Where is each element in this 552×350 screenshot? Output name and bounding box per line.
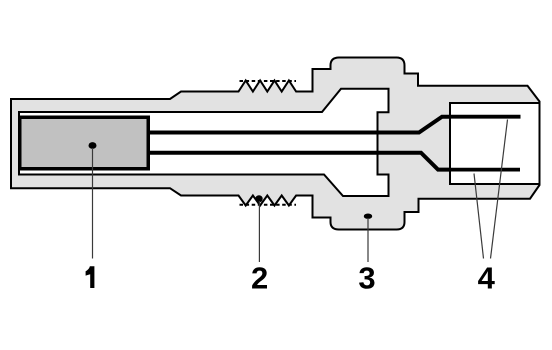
dot 1: [89, 142, 97, 149]
wire 1: [149, 117, 521, 133]
svg-text:3: 3: [358, 260, 375, 295]
leader line 4b: [474, 174, 484, 259]
leader line 3: [367, 218, 369, 262]
thread crest dashed line top: [240, 80, 297, 82]
terminal 2 inside connector: [450, 168, 520, 172]
leader line 4a: [491, 120, 508, 259]
leader line 2: [258, 201, 260, 262]
terminal 1 inside connector: [450, 115, 521, 119]
wire 2: [149, 153, 520, 170]
dot 3: [364, 214, 372, 219]
inner cavity: [19, 89, 389, 196]
svg-text:2: 2: [251, 260, 268, 295]
svg-text:4: 4: [478, 260, 496, 295]
sensor body: [11, 58, 540, 230]
dot 2: [255, 195, 262, 202]
label 1: [86, 266, 95, 288]
leader line 1: [92, 148, 94, 259]
thread crest dashed line bottom: [240, 204, 297, 206]
sensing element 1: [20, 117, 149, 169]
connector cavity: [450, 103, 540, 184]
